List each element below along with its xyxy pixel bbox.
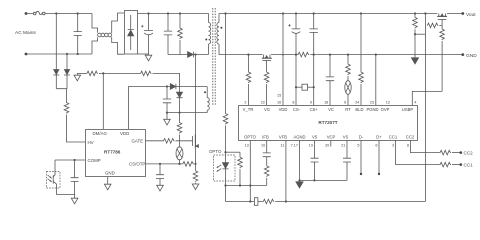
svg-text:OPTO: OPTO [244, 135, 257, 140]
capacitor C11 V5 [311, 140, 319, 180]
capacitor C4 VDD [163, 87, 171, 120]
capacitor C9 VC [326, 55, 334, 105]
resistor R20 gate pulldown [440, 29, 445, 92]
wire opto emitter [57, 188, 75, 195]
wire divider tap [415, 33, 425, 35]
svg-text:8: 8 [292, 101, 294, 105]
node V_TR rail tap [247, 54, 249, 56]
wire CC1 terminal [452, 164, 460, 166]
ground secondary rail [414, 55, 416, 58]
node BLD top rail tap [360, 12, 362, 14]
capacitor C6 COMP [71, 160, 79, 195]
node RT rail tap [347, 54, 349, 56]
svg-text:6: 6 [344, 101, 346, 105]
svg-text:9: 9 [310, 101, 312, 105]
component series box [254, 198, 258, 206]
node VDD rail crossing [282, 54, 284, 56]
ground AGND [296, 180, 303, 188]
wire CS to source [194, 163, 197, 165]
node VFB bottom junction [285, 200, 287, 202]
svg-text:22: 22 [261, 101, 265, 105]
node PGND rail tap [375, 54, 377, 56]
resistor R7 opto feed [223, 113, 228, 125]
wire DC bus top [138, 13, 209, 15]
svg-text:CS+: CS+ [310, 107, 319, 112]
resistor R19 gate series [427, 23, 439, 28]
svg-text:10: 10 [261, 144, 265, 148]
IC U4 RT7207T box [239, 106, 418, 141]
svg-text:V_TR: V_TR [243, 107, 254, 112]
svg-text:8: 8 [407, 144, 409, 148]
node snubber res top [179, 12, 181, 14]
thermistor RT ellipse [345, 81, 351, 105]
node CC1 terminal [460, 163, 463, 166]
capacitor C12 VS [343, 140, 351, 180]
node X-cap top [77, 12, 79, 14]
svg-text:VS: VS [343, 135, 349, 140]
wire AC neutral bottom rail [26, 53, 92, 55]
resistor R5 CS filter [182, 162, 194, 167]
capacitor C10 IFB [263, 140, 271, 165]
node riser rail tap [424, 12, 426, 14]
wire AC line top rail [26, 13, 92, 15]
inductor L1 common-mode choke [92, 13, 124, 54]
node CS+ top rail [313, 12, 315, 14]
capacitor C2 bulk electrolytic [141, 14, 153, 56]
wire USBP [412, 91, 442, 105]
node top rail / startup tap [55, 12, 57, 14]
wire PGND [375, 55, 377, 105]
node drain junction [194, 53, 196, 55]
wire GND pin stub [107, 177, 109, 184]
svg-text:VDD: VDD [120, 131, 129, 136]
diode D2 startup [64, 70, 70, 89]
capacitor C1 X-cap [74, 14, 82, 55]
svg-text:16: 16 [277, 101, 281, 105]
wire DM/AG pin drop [102, 73, 104, 129]
node CS+ filter tap [313, 86, 315, 88]
diode D5 demag [177, 92, 183, 122]
svg-text:DM/AG: DM/AG [93, 131, 108, 136]
capacitor C5 CS/OTP [156, 164, 164, 185]
resistor R startup HV [64, 102, 69, 114]
svg-text:VG: VG [264, 107, 270, 112]
svg-text:D-: D- [359, 135, 364, 140]
optocoupler U3 LED side [214, 155, 236, 186]
node aux return to demag [178, 112, 180, 114]
svg-text:USBP: USBP [402, 107, 414, 112]
node CS- rail junction [295, 54, 297, 56]
transformer T1 primary winding [209, 14, 211, 55]
node demag chain to CS [178, 163, 180, 165]
resistor R13 RT [346, 55, 351, 81]
svg-text:5: 5 [357, 144, 359, 148]
node VDD top rail [282, 12, 284, 14]
wire demag chain [179, 135, 181, 147]
wire VDD line [282, 14, 284, 106]
node V5 junction [313, 179, 315, 181]
resistor R2 demag [86, 71, 98, 76]
resistor R9 feedback [263, 199, 275, 204]
optocoupler U2 transistor side [47, 160, 61, 188]
wire startup drop from neutral [66, 54, 68, 69]
node GND terminal [461, 53, 464, 56]
wire parallel resistor top [226, 151, 241, 153]
capacitor C7 output electrolytic [288, 14, 300, 106]
svg-text:VCP: VCP [327, 135, 336, 140]
node OPTO bottom junction [249, 200, 251, 202]
ground COMP network [71, 195, 78, 204]
svg-text:CS-: CS- [293, 107, 301, 112]
svg-text:CC1: CC1 [464, 163, 474, 168]
wire clamp bottom [168, 54, 188, 56]
svg-text:PGND: PGND [366, 107, 378, 112]
resistor R10 V_TR [246, 55, 251, 105]
svg-text:V5: V5 [312, 135, 318, 140]
node CC2 terminal [460, 151, 463, 154]
wire feedback bottom bus [226, 201, 426, 203]
wire opto feed [225, 14, 227, 114]
node bottom rail / startup tap [66, 53, 68, 55]
resistor R18 divider upper [413, 14, 418, 56]
svg-text:15: 15 [277, 94, 281, 98]
svg-text:VDD: VDD [279, 107, 288, 112]
wire D+ stub [378, 140, 380, 173]
diode D1 startup [53, 70, 59, 89]
node R8 bottom [239, 184, 241, 186]
node opto parallel bottom [224, 184, 226, 186]
wire DC return [138, 53, 149, 55]
capacitor C3 clamp [164, 14, 172, 55]
node opto feed tap [224, 12, 226, 14]
wire VDD feed from aux [129, 87, 171, 130]
svg-text:RT7786: RT7786 [104, 150, 121, 155]
resistor R3 demag [140, 71, 152, 76]
svg-text:IFB: IFB [262, 135, 269, 140]
resistor R11 VG gate [264, 60, 269, 105]
wire gate to Q1 [176, 140, 193, 142]
resistor R14 BLD bleeder [359, 14, 364, 106]
node CS- filter tap [295, 86, 297, 88]
svg-text:AC Mains: AC Mains [15, 30, 36, 36]
capacitor C8 output [310, 14, 318, 106]
node COMP cap tap [74, 159, 76, 161]
AC input terminal top [25, 12, 28, 15]
svg-text:Vout: Vout [466, 12, 476, 18]
svg-text:11: 11 [280, 144, 284, 148]
svg-text:13: 13 [245, 144, 249, 148]
wire CS/OTP [146, 163, 182, 165]
transistor Q3 load switch PMOS [437, 14, 447, 20]
transformer T1 auxiliary winding [207, 87, 209, 113]
svg-text:VFB: VFB [279, 135, 287, 140]
svg-text:CC2: CC2 [464, 151, 474, 156]
wire drain [195, 55, 197, 135]
wire CC1 [396, 140, 440, 164]
svg-text:COMP: COMP [88, 158, 101, 163]
node divider tap [414, 33, 416, 35]
diode D3 clamp [188, 52, 209, 58]
bridge rectifier BD1 [125, 11, 138, 55]
ground CS cap [157, 185, 164, 191]
resistor R8 opto parallel [238, 152, 243, 185]
svg-text:RT: RT [345, 107, 351, 112]
wire COMP [55, 159, 85, 161]
svg-text:4: 4 [414, 101, 416, 105]
wire CC2 terminal [452, 152, 460, 154]
svg-text:20: 20 [325, 144, 329, 148]
wire aux return [167, 112, 207, 114]
node OPTO pin crossing [249, 184, 251, 186]
node VDD cap junction [166, 85, 168, 87]
node D- terminal [360, 173, 362, 175]
wire DM/AG [77, 72, 86, 74]
svg-text:AGND: AGND [293, 135, 305, 140]
node aux polarity dot [204, 91, 206, 93]
resistor R17 CC2 [440, 150, 452, 155]
svg-text:19: 19 [309, 144, 313, 148]
svg-text:CC1: CC1 [389, 135, 398, 140]
wire AGND line [299, 140, 301, 180]
svg-text:CC2: CC2 [406, 135, 415, 140]
node Vout terminal [461, 12, 464, 15]
node secondary polarity dot [220, 27, 222, 29]
ground bulk cap [145, 55, 152, 61]
wire opto anode [225, 126, 227, 163]
node snubber cap top [167, 12, 169, 14]
svg-text:21: 21 [341, 144, 345, 148]
wire VFB pin line [285, 140, 287, 201]
wire D- stub [360, 140, 362, 173]
CS filter component [296, 84, 314, 90]
node DM/AG tap [102, 72, 104, 74]
node primary polarity dot [205, 39, 207, 41]
transistor Q2 sync rectifier [262, 55, 272, 61]
svg-text:12: 12 [386, 101, 390, 105]
wire analog ground bus [300, 179, 348, 181]
wire to HV pin [67, 115, 86, 143]
node CS+ rail junction [313, 54, 315, 56]
svg-text:7,17: 7,17 [291, 144, 298, 148]
resistor R6 current sense [193, 164, 198, 184]
svg-text:2: 2 [244, 101, 246, 105]
svg-text:6: 6 [375, 144, 377, 148]
svg-text:D+: D+ [376, 135, 382, 140]
resistor R demag lower [177, 122, 182, 134]
node VC rail tap [329, 54, 331, 56]
resistor R15 IFB [264, 165, 269, 185]
wire opto cathode down [225, 186, 227, 202]
wire startup drop from line [55, 14, 57, 70]
thermistor NTC ellipse [176, 147, 183, 164]
resistor R12 current shunt [298, 52, 310, 57]
resistor R4 gate [163, 139, 175, 144]
svg-text:VC: VC [328, 107, 334, 112]
svg-text:HV: HV [88, 140, 94, 145]
svg-text:GND: GND [105, 171, 115, 176]
wire Q1 source [195, 148, 197, 164]
ground VDD cap [164, 119, 171, 125]
wire GATE pin [146, 140, 163, 142]
svg-text:24: 24 [355, 101, 359, 105]
node CS cap tap [159, 163, 161, 165]
wire demag to aux diode [153, 73, 180, 92]
transformer T1 secondary winding [217, 14, 219, 55]
wire secondary ground rail [219, 54, 462, 56]
svg-text:CS/OTP: CS/OTP [129, 162, 145, 167]
wire bias bus [226, 185, 267, 187]
svg-text:OVP: OVP [381, 107, 390, 112]
wire startup merge [56, 89, 67, 102]
resistor R1 clamp [178, 14, 183, 55]
wire DM/AG mid [99, 72, 140, 74]
svg-text:OPTO: OPTO [209, 149, 222, 154]
wire gate node [439, 19, 442, 28]
svg-text:23: 23 [370, 101, 374, 105]
IC U1 RT7786 box [86, 130, 146, 177]
svg-text:GND: GND [466, 53, 477, 59]
node divider top rail tap [414, 12, 416, 14]
wire feedback riser [424, 14, 426, 202]
node aux return to cap [166, 112, 168, 114]
node AGND junction [298, 179, 300, 181]
node X-cap bottom [77, 53, 79, 55]
AC input terminal bottom [25, 53, 28, 56]
wire secondary top rail [219, 13, 462, 15]
node opto parallel top [224, 151, 226, 153]
node source sense junction [194, 163, 196, 165]
node D+ terminal [378, 173, 380, 175]
wire CC2 [411, 140, 440, 152]
svg-text:3: 3 [392, 144, 394, 148]
ground DM/AG arrow [74, 73, 81, 80]
transistor Q1 primary MOSFET [193, 134, 199, 147]
ground sense resistor [192, 184, 199, 190]
diode D4 aux rectifier [170, 84, 207, 90]
node CS- top rail [295, 12, 297, 14]
wire OPTO pin line [249, 140, 251, 201]
wire VCP stub [330, 140, 332, 146]
fuse F1 [33, 11, 45, 15]
svg-text:BLD: BLD [355, 107, 363, 112]
resistor R16 CC1 [440, 162, 452, 167]
transformer T1 core [213, 8, 215, 106]
svg-text:18: 18 [324, 101, 328, 105]
node bulk cap top [147, 12, 149, 14]
svg-text:RT7207T: RT7207T [318, 120, 337, 125]
svg-text:GATE: GATE [132, 139, 144, 144]
ground RT7786 GND [104, 184, 111, 190]
